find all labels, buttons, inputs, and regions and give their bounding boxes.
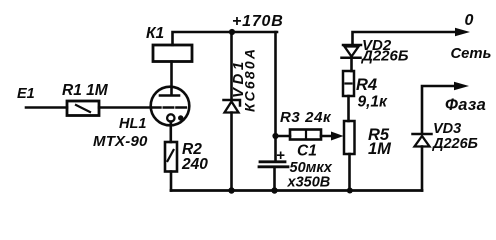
capacitor C1 plus — [276, 147, 285, 164]
cathode circle — [167, 114, 174, 121]
node E1 label — [17, 86, 35, 102]
label Set' — [451, 46, 492, 62]
wiper arrowhead — [331, 132, 344, 141]
svg-text:Е1: Е1 — [17, 86, 35, 102]
resistor R4 — [343, 71, 354, 96]
junction dot VD1 top — [229, 29, 235, 35]
label R1 1M — [62, 82, 109, 99]
svg-text:КС680А: КС680А — [242, 47, 258, 112]
svg-text:R1 1М: R1 1М — [62, 82, 109, 99]
label 50mk — [290, 160, 333, 176]
wire E1 input — [26, 106, 67, 109]
svg-text:VD3: VD3 — [433, 121, 461, 137]
label D226B (VD2) — [360, 48, 409, 65]
svg-text:HL1: HL1 — [119, 116, 146, 132]
label R4 — [356, 76, 377, 94]
label VD1 (vertical) — [230, 58, 247, 98]
resistor R3 — [290, 130, 321, 140]
junction dot VD1 bottom — [228, 187, 234, 193]
label +170V — [232, 13, 284, 30]
wire Set' output — [353, 32, 457, 45]
svg-text:9,1к: 9,1к — [358, 94, 389, 111]
junction dot R5 bottom — [347, 188, 353, 194]
label 240 — [181, 156, 208, 173]
svg-text:Д226Б: Д226Б — [431, 136, 478, 152]
label 1M — [368, 140, 392, 158]
label D226B (VD3) — [431, 136, 478, 152]
diode VD3 — [413, 133, 432, 136]
wire R2 to bottom rail — [170, 172, 173, 191]
wire R5 to bottom rail — [348, 154, 351, 191]
thyratron HL1 — [151, 87, 190, 126]
label MTX-90 — [93, 133, 148, 150]
label K1 — [146, 25, 164, 42]
wire Faza output — [422, 86, 455, 133]
label R2 — [182, 141, 202, 158]
svg-text:0: 0 — [465, 12, 474, 29]
wire R3 to R5 wiper — [321, 135, 335, 138]
gas dot — [178, 115, 183, 120]
wire R4 to R5 — [347, 96, 350, 121]
label VD2 — [362, 37, 392, 54]
svg-text:R3 24к: R3 24к — [280, 109, 332, 126]
relay K1 — [153, 45, 192, 62]
svg-text:Д226Б: Д226Б — [360, 48, 409, 65]
svg-text:1М: 1М — [368, 140, 392, 158]
wire to R3 — [276, 135, 291, 138]
label x350V — [287, 175, 331, 191]
svg-text:МТХ-90: МТХ-90 — [93, 133, 148, 150]
svg-text:Фаза: Фаза — [445, 96, 486, 114]
label HL1 — [119, 116, 146, 132]
svg-text:Сеть: Сеть — [451, 46, 492, 62]
label Faza — [445, 96, 486, 114]
wire bottom rail — [171, 189, 422, 192]
svg-text:С1: С1 — [297, 143, 317, 160]
svg-text:+170В: +170В — [232, 13, 284, 30]
junction dot R3 left — [272, 133, 278, 139]
capacitor C1 — [260, 160, 285, 163]
label C1 — [297, 143, 317, 160]
svg-text:х350В: х350В — [287, 175, 331, 191]
junction dot C1 bottom — [271, 187, 277, 193]
label 0 — [465, 12, 474, 29]
wire K1 to anode — [170, 62, 173, 95]
label R5 — [368, 126, 390, 144]
svg-text:R4: R4 — [356, 76, 377, 94]
resistor R2 — [165, 142, 177, 172]
label VD3 — [433, 121, 461, 137]
label KS680A (vertical) — [242, 47, 258, 112]
label R3 24k — [280, 109, 332, 126]
zener VD1 — [230, 32, 233, 99]
diode VD2 — [343, 44, 361, 47]
grid dashed electrode — [151, 106, 188, 108]
anode bar — [160, 94, 179, 97]
wire K1 top to rail — [173, 32, 278, 45]
label 9,1k — [358, 94, 389, 111]
potentiometer R5 — [344, 121, 355, 154]
arrowhead Faza — [454, 82, 469, 90]
arrowhead Set' — [455, 28, 470, 36]
wire rail corner down to R3/C1 — [274, 32, 277, 161]
resistor R1 — [67, 101, 99, 116]
wire cathode to R2 — [170, 122, 173, 143]
wire R1 to HL1 grid — [99, 106, 151, 109]
svg-text:К1: К1 — [146, 25, 164, 42]
svg-text:240: 240 — [181, 156, 208, 173]
